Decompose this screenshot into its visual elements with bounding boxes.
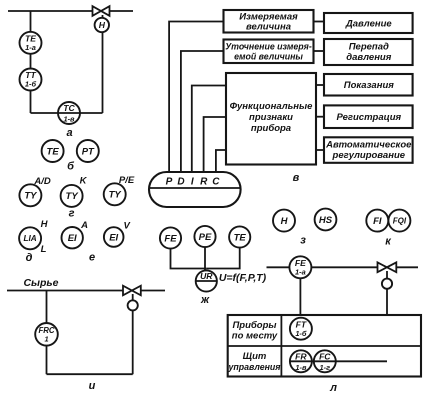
label instruments local — [232, 320, 278, 342]
wire bottom run — [31, 112, 103, 114]
svg-text:TC: TC — [63, 103, 75, 113]
wire P to box1 — [169, 22, 223, 173]
box functional signs — [226, 73, 316, 165]
svg-text:FT: FT — [296, 319, 307, 329]
svg-text:L: L — [41, 244, 47, 255]
instrument circle HS — [315, 209, 337, 231]
wire PE drop — [204, 247, 206, 270]
instrument circle FE — [160, 227, 181, 248]
svg-text:и: и — [89, 380, 96, 392]
svg-text:Автоматическое: Автоматическое — [325, 140, 412, 151]
label control panel — [228, 351, 282, 372]
svg-text:Регистрация: Регистрация — [336, 112, 401, 123]
wire FE drop — [171, 249, 207, 269]
wire bigbox to regulation — [316, 149, 325, 151]
instrument circle TY 2 — [61, 185, 83, 207]
svg-text:Давление: Давление — [345, 19, 392, 30]
box pressure — [324, 13, 413, 33]
svg-text:1-в: 1-в — [295, 363, 307, 372]
instrument circle FE 1-a — [289, 256, 311, 278]
wire FT to FR — [299, 339, 301, 351]
svg-text:1-a: 1-a — [25, 43, 36, 52]
svg-text:Перепад: Перепад — [349, 42, 389, 53]
wire pipe l — [267, 266, 419, 268]
svg-text:в: в — [293, 172, 300, 184]
svg-text:е: е — [89, 252, 95, 264]
svg-text:I: I — [191, 177, 194, 188]
instrument circle TC 1-v — [58, 102, 80, 124]
svg-text:TE: TE — [25, 34, 36, 44]
svg-text:FC: FC — [319, 351, 331, 361]
svg-text:C: C — [212, 177, 220, 188]
actuator circle small — [128, 300, 138, 310]
svg-text:TE: TE — [234, 232, 247, 243]
instrument circle TE 1-a — [20, 32, 42, 54]
instrument circle FR 1-v — [290, 350, 312, 372]
actuator circle small l — [382, 279, 392, 289]
svg-text:управления: управления — [228, 362, 282, 372]
svg-text:1-б: 1-б — [295, 329, 307, 338]
table local and panel — [228, 315, 421, 377]
svg-text:з: з — [300, 235, 306, 247]
wire D to box2 — [181, 51, 224, 173]
instrument circle FRC 1 — [35, 323, 58, 346]
wire TE drop — [206, 248, 239, 269]
instrument circle FI — [366, 210, 388, 232]
svg-text:д: д — [26, 252, 33, 264]
svg-text:ж: ж — [200, 294, 210, 306]
svg-text:Щит: Щит — [243, 351, 267, 362]
svg-text:FE: FE — [295, 258, 306, 268]
svg-text:1: 1 — [44, 335, 48, 344]
wire bottom run i — [47, 373, 133, 375]
instrument circle TY 1 — [19, 184, 41, 206]
instrument circle FC 1-g — [314, 350, 336, 372]
svg-text:1-б: 1-б — [25, 80, 37, 89]
svg-text:FI: FI — [373, 216, 382, 227]
valve V2 — [123, 286, 141, 296]
svg-text:D: D — [177, 177, 184, 188]
svg-text:1-a: 1-a — [295, 268, 306, 277]
svg-text:A: A — [80, 220, 88, 231]
svg-text:V: V — [124, 221, 131, 232]
svg-text:H: H — [281, 216, 289, 227]
instrument circle TY 3 — [104, 183, 126, 205]
svg-text:FE: FE — [164, 233, 177, 244]
svg-text:HS: HS — [319, 215, 333, 226]
wire box1 to pressure — [314, 21, 326, 23]
svg-text:P: P — [166, 177, 173, 188]
svg-text:A/D: A/D — [33, 176, 51, 187]
svg-text:емой величины: емой величины — [234, 52, 303, 62]
svg-text:TY: TY — [109, 190, 123, 201]
valve V3 — [378, 262, 397, 272]
wire bigbox to indication — [316, 84, 325, 86]
svg-text:Показания: Показания — [344, 80, 395, 91]
svg-text:Уточнение измеря-: Уточнение измеря- — [225, 42, 312, 52]
svg-text:г: г — [69, 208, 75, 220]
svg-text:TE: TE — [47, 146, 60, 157]
svg-text:FQI: FQI — [393, 217, 407, 226]
svg-text:K: K — [80, 176, 88, 187]
svg-text:регулирование: регулирование — [332, 150, 406, 161]
svg-text:P/E: P/E — [119, 175, 135, 186]
instrument circle H — [273, 210, 295, 232]
svg-text:прибора: прибора — [251, 123, 291, 134]
svg-text:б: б — [67, 161, 75, 173]
instrument circle TE — [42, 140, 64, 162]
wire box2 to diff pressure — [314, 50, 326, 52]
svg-text:LIA: LIA — [23, 234, 36, 243]
svg-text:R: R — [200, 177, 208, 188]
instrument circle H actuator — [95, 18, 109, 32]
instrument circle LIA — [19, 227, 41, 249]
box differential pressure — [324, 39, 413, 65]
instrument circle TT 1-b — [20, 69, 42, 91]
svg-text:H: H — [41, 219, 49, 230]
instrument circle EI 1 — [61, 227, 82, 248]
instrument circle PT — [77, 140, 99, 162]
svg-text:TT: TT — [25, 70, 36, 80]
svg-text:Сырье: Сырье — [23, 277, 58, 289]
instrument circle UR computer — [196, 270, 217, 291]
wire R to bigbox — [204, 117, 226, 173]
svg-text:признаки: признаки — [249, 112, 293, 123]
svg-text:по месту: по месту — [232, 331, 278, 342]
wire I to bigbox — [192, 86, 226, 173]
svg-text:H: H — [99, 20, 106, 30]
svg-text:TY: TY — [66, 191, 80, 202]
box indication — [324, 74, 413, 96]
box automatic regulation — [324, 137, 413, 163]
svg-text:к: к — [385, 236, 392, 248]
svg-text:1-в: 1-в — [63, 115, 75, 124]
svg-text:TY: TY — [24, 191, 38, 202]
wire valve stem — [102, 15, 104, 113]
instrument circle EI 2 — [104, 227, 124, 247]
svg-text:а: а — [66, 127, 72, 139]
box registration — [324, 105, 413, 128]
wire FE to FT — [299, 278, 301, 318]
svg-text:л: л — [329, 382, 337, 394]
svg-text:UR: UR — [200, 271, 213, 281]
svg-text:Функциональные: Функциональные — [230, 101, 314, 112]
svg-text:FR: FR — [295, 351, 307, 361]
svg-text:EI: EI — [68, 233, 77, 244]
svg-text:EI: EI — [109, 232, 118, 243]
wire bigbox to registration — [316, 116, 325, 118]
svg-text:U=f(F,P,T): U=f(F,P,T) — [219, 272, 267, 284]
wire chord to valve line — [290, 360, 387, 362]
wire sensor drop — [30, 11, 32, 113]
wire pipe top-left — [8, 10, 133, 12]
box measured quantity — [224, 10, 314, 33]
valve V1 — [93, 6, 110, 16]
stadium PDIRC — [149, 172, 241, 207]
wire pipe feed — [7, 290, 165, 292]
instrument circle TE sensor — [229, 226, 250, 247]
instrument circle PE — [194, 226, 215, 247]
wire valve stem i — [132, 294, 134, 374]
svg-text:давления: давления — [346, 52, 392, 63]
instrument circle FT 1-b — [290, 318, 312, 340]
svg-text:величина: величина — [246, 22, 291, 33]
box refinement — [224, 40, 314, 64]
svg-text:PT: PT — [82, 146, 95, 157]
svg-text:Приборы: Приборы — [232, 320, 276, 331]
svg-text:1-г: 1-г — [320, 363, 331, 372]
svg-text:PE: PE — [199, 232, 212, 243]
wire FRC drop — [46, 291, 48, 375]
instrument circle FQI — [388, 210, 410, 232]
wire valve stem l — [386, 271, 388, 361]
wire C to bigbox — [216, 150, 226, 173]
